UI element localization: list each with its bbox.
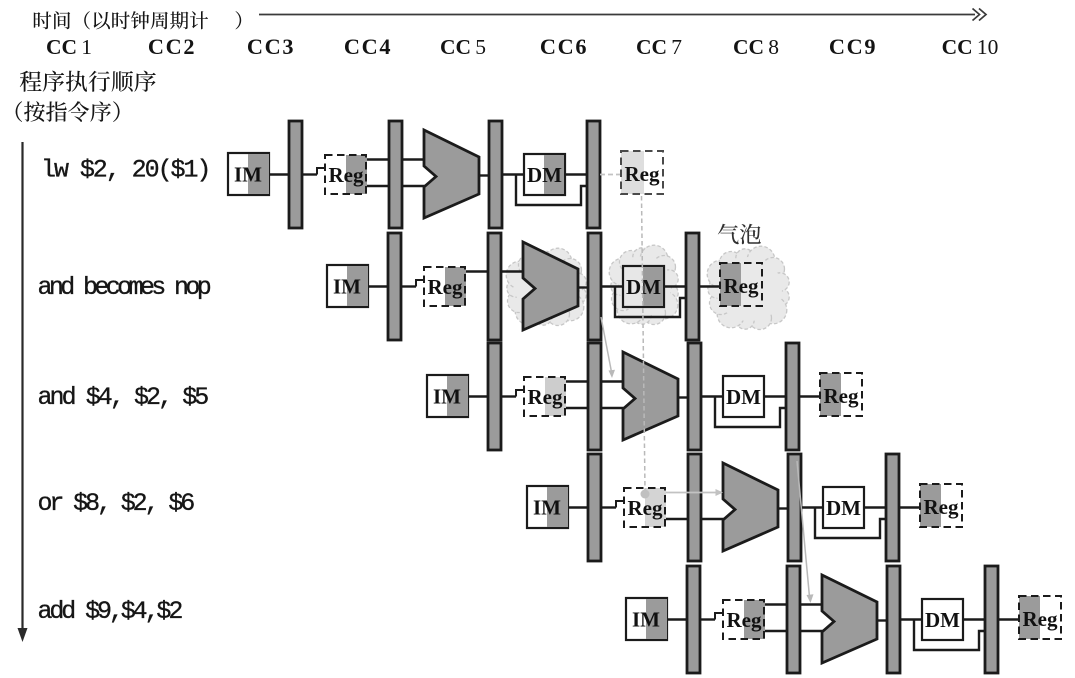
row3 IM (instruction memory) bbox=[427, 375, 468, 417]
row5 upper operand wire bar2 to ALU bbox=[800, 603, 823, 605]
label: (in instruction order) bbox=[16, 101, 120, 122]
row5 lower operand wire Reg to bar2 bbox=[765, 630, 787, 632]
row3 wire bar1 to Reg bbox=[501, 395, 516, 397]
svg-text:CC2: CC2 bbox=[148, 34, 196, 59]
row1 Reg (register write back) bbox=[621, 151, 663, 194]
row2 writeback path under DM bbox=[615, 287, 686, 318]
row5 Reg (register write back) bbox=[1019, 596, 1061, 639]
svg-text:CC9: CC9 bbox=[829, 34, 877, 59]
pipeline register bar row5 ID/EX bbox=[787, 566, 800, 673]
pipeline register bar row5 MEM/WB bbox=[985, 566, 998, 673]
row4 wire bar3 to DM bbox=[801, 506, 823, 508]
svg-text:DM: DM bbox=[527, 163, 562, 187]
row4 ALU output wire bbox=[778, 507, 788, 509]
row4 wire DM to bar4 bbox=[864, 506, 886, 508]
row2 wire DM to bar4 bbox=[664, 285, 686, 287]
row2 Reg (register file read) bbox=[424, 267, 466, 306]
row1 ALU output wire bbox=[479, 174, 489, 176]
row3 ALU output wire bbox=[678, 396, 688, 398]
row4 lower operand wire bar2 to ALU bbox=[701, 518, 724, 520]
svg-text:CC6: CC6 bbox=[540, 34, 588, 59]
row2 Reg (register write back) bbox=[720, 263, 762, 306]
row5 wire IM to bar1 bbox=[667, 618, 687, 620]
pipeline register bar row5 EX/MEM bbox=[887, 566, 900, 673]
bubble around row2 DM (bubble cloud) bbox=[609, 245, 678, 324]
svg-text:DM: DM bbox=[626, 275, 661, 299]
row4 DM (data memory) bbox=[823, 487, 864, 528]
forwarded operand grey wire row4 Reg to row4 ALU bbox=[666, 492, 719, 494]
pipeline register bar row4 ID/EX bbox=[688, 454, 701, 561]
row2 wire bar1 to Reg bbox=[401, 285, 416, 287]
row3 DM (data memory) bbox=[723, 376, 764, 417]
row2 Reg write-clock notch bbox=[416, 280, 425, 287]
svg-text:and becomes nop: and becomes nop bbox=[38, 273, 211, 302]
row1 Reg write-clock notch bbox=[317, 168, 326, 175]
svg-text:Reg: Reg bbox=[824, 384, 859, 408]
row2 wire bar3 to DM bbox=[601, 285, 623, 287]
row1 upper operand wire Reg to bar2 bbox=[367, 158, 389, 160]
row5 Reg (register file read) bbox=[723, 600, 765, 639]
pipeline register bar row4 EX/MEM bbox=[788, 454, 801, 561]
row5 ALU output wire bbox=[877, 619, 887, 621]
svg-text:Reg: Reg bbox=[727, 608, 762, 632]
row1 writeback path under DM bbox=[516, 175, 587, 206]
row5 Reg write-clock notch bbox=[715, 613, 724, 620]
row5 wire bar3 to DM bbox=[900, 618, 922, 620]
row5 IM (instruction memory) bbox=[626, 598, 667, 640]
pipeline register bar row1 MEM/WB bbox=[587, 121, 600, 228]
pipeline register bar row2 IF/ID bbox=[388, 233, 401, 340]
dependency arrow into row5 ALU upper input bbox=[797, 461, 810, 597]
row2 wire IM to bar1 bbox=[368, 285, 388, 287]
row1 wire bar3 to DM bbox=[502, 173, 524, 175]
svg-text:DM: DM bbox=[826, 496, 861, 520]
row1 DM (data memory) bbox=[524, 154, 565, 195]
svg-text:add $9,$4,$2: add $9,$4,$2 bbox=[38, 597, 183, 626]
row5 wire DM to bar4 bbox=[963, 618, 985, 620]
row1 wire bar4 to WB Reg bbox=[600, 174, 621, 176]
row4 Reg (register write back) bbox=[920, 484, 962, 527]
row2 IM (instruction memory) bbox=[327, 265, 368, 307]
row1 ALU bbox=[424, 130, 479, 218]
svg-text:Reg: Reg bbox=[329, 163, 364, 187]
row1 wire IM to bar1 bbox=[269, 173, 289, 175]
row2 ALU output wire bbox=[578, 286, 588, 288]
svg-text:Reg: Reg bbox=[1023, 607, 1058, 631]
svg-text:IM: IM bbox=[333, 275, 361, 299]
svg-text:Reg: Reg bbox=[625, 162, 660, 186]
pipeline register bar row3 MEM/WB bbox=[786, 343, 799, 450]
row4 writeback path under DM bbox=[815, 508, 886, 539]
row3 writeback path under DM bbox=[715, 397, 786, 428]
pipeline register bar row2 MEM/WB bbox=[686, 233, 699, 340]
svg-text:IM: IM bbox=[433, 385, 461, 409]
svg-text:CC 1: CC 1 bbox=[46, 35, 92, 59]
row2 wire bar4 to WB Reg bbox=[699, 285, 720, 287]
row1 upper operand wire bar2 to ALU bbox=[402, 158, 425, 160]
row3 Reg (register file read) bbox=[524, 377, 566, 416]
row3 lower operand wire bar2 to ALU bbox=[601, 407, 624, 409]
bubble around row2 WB Reg (bubble cloud) bbox=[707, 246, 789, 329]
row4 lower operand wire Reg to bar2 bbox=[666, 518, 688, 520]
row1 wire bar1 to Reg bbox=[302, 173, 317, 175]
svg-text:Reg: Reg bbox=[924, 495, 959, 519]
row5 ALU bbox=[822, 575, 877, 663]
row1 lower operand wire Reg to bar2 bbox=[367, 185, 389, 187]
time axis arrow bbox=[259, 14, 975, 16]
svg-text:DM: DM bbox=[726, 385, 761, 409]
pipeline register bar row5 IF/ID bbox=[687, 566, 700, 673]
svg-text:IM: IM bbox=[632, 608, 660, 632]
row3 wire bar4 to WB Reg bbox=[799, 395, 820, 397]
title: time (in clock cycles) bbox=[34, 11, 241, 29]
row4 wire bar1 to Reg bbox=[601, 506, 616, 508]
pipeline register bar row2 EX/MEM bbox=[588, 233, 601, 340]
label: program execution order bbox=[20, 71, 156, 92]
row4 Reg write-clock notch bbox=[616, 501, 625, 508]
svg-text:or $8, $2, $6: or $8, $2, $6 bbox=[38, 489, 195, 518]
row3 Reg (register write back) bbox=[820, 373, 862, 416]
svg-text:CC4: CC4 bbox=[344, 34, 392, 59]
row5 lower operand wire bar2 to ALU bbox=[800, 630, 823, 632]
row4 IM (instruction memory) bbox=[527, 486, 568, 528]
row4 ALU bbox=[723, 463, 778, 551]
svg-text:Reg: Reg bbox=[724, 274, 759, 298]
svg-text:Reg: Reg bbox=[428, 275, 463, 299]
row1 lower operand wire bar2 to ALU bbox=[402, 185, 425, 187]
pipeline register bar row3 ID/EX bbox=[588, 343, 601, 450]
row1 wire DM to bar4 bbox=[565, 173, 587, 175]
svg-text:Reg: Reg bbox=[628, 496, 663, 520]
pipeline register bar row1 IF/ID bbox=[289, 121, 302, 228]
row3 upper operand wire Reg to bar2 bbox=[566, 380, 588, 382]
row4 Reg (register file read) bbox=[624, 488, 666, 527]
program order down-arrow bbox=[21, 142, 23, 633]
row2 DM (data memory) bbox=[623, 266, 664, 307]
row5 wire bar4 to WB Reg bbox=[998, 618, 1019, 620]
row2 operand wire Reg to bar2 bbox=[466, 270, 488, 272]
svg-text:CC 8: CC 8 bbox=[733, 35, 779, 59]
svg-text:and $4, $2, $5: and $4, $2, $5 bbox=[38, 383, 209, 412]
row3 wire DM to bar4 bbox=[764, 395, 786, 397]
row2 ALU bbox=[523, 242, 578, 330]
row1 IM (instruction memory) bbox=[228, 153, 269, 195]
svg-text:IM: IM bbox=[533, 496, 561, 520]
svg-text:lw $2, 20($1): lw $2, 20($1) bbox=[41, 156, 209, 185]
pipeline register bar row4 MEM/WB bbox=[886, 454, 899, 561]
row4 wire IM to bar1 bbox=[568, 506, 588, 508]
svg-text:CC 7: CC 7 bbox=[636, 35, 682, 59]
row2 operand wire bar2 to ALU bbox=[501, 270, 524, 272]
dependency arrow into row3 ALU upper input bbox=[601, 317, 612, 372]
pipeline register bar row2 ID/EX bbox=[488, 233, 501, 340]
dependency line: lw $2 write (row1 WB Reg) down to row4 Reg read bbox=[642, 196, 646, 490]
row5 wire bar1 to Reg bbox=[700, 618, 715, 620]
label: bubble (qi pao) bbox=[718, 224, 761, 245]
svg-text:CC 10: CC 10 bbox=[942, 35, 999, 59]
row5 DM (data memory) bbox=[922, 599, 963, 640]
row5 writeback path under DM bbox=[914, 620, 985, 651]
pipeline register bar row1 EX/MEM bbox=[489, 121, 502, 228]
svg-text:IM: IM bbox=[234, 163, 262, 187]
svg-text:DM: DM bbox=[925, 608, 960, 632]
row3 ALU bbox=[623, 352, 678, 440]
svg-text:Reg: Reg bbox=[528, 385, 563, 409]
row5 upper operand wire Reg to bar2 bbox=[765, 603, 787, 605]
row4 wire bar4 to WB Reg bbox=[899, 506, 920, 508]
row3 wire bar3 to DM bbox=[701, 395, 723, 397]
svg-text:CC 5: CC 5 bbox=[440, 35, 486, 59]
svg-text:CC3: CC3 bbox=[247, 34, 295, 59]
row3 lower operand wire Reg to bar2 bbox=[566, 407, 588, 409]
pipeline register bar row3 IF/ID bbox=[488, 343, 501, 450]
bubble around row2 ALU (bubble cloud) bbox=[506, 248, 586, 325]
row3 wire IM to bar1 bbox=[468, 395, 488, 397]
pipeline register bar row3 EX/MEM bbox=[688, 343, 701, 450]
row1 Reg (register file read) bbox=[325, 155, 367, 194]
pipeline register bar row4 IF/ID bbox=[588, 454, 601, 561]
row3 Reg write-clock notch bbox=[516, 390, 525, 397]
pipeline register bar row1 ID/EX bbox=[389, 121, 402, 228]
row3 upper operand wire bar2 to ALU bbox=[601, 380, 624, 382]
